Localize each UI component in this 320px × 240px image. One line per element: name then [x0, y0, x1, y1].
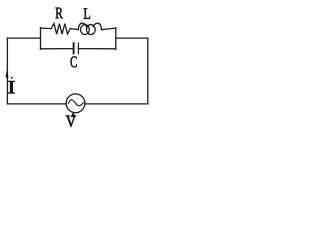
resistor R1 zigzag: [51, 24, 70, 34]
wire: right node to top-right corner: [116, 37, 148, 39]
wire: bottom-left horizontal to AC source: [7, 103, 66, 105]
label C: [71, 56, 77, 67]
node A: left junction stub of parallel block: [40, 28, 42, 50]
wire: left vertical side of loop: [6, 38, 8, 104]
wire: right vertical side of loop: [147, 38, 149, 104]
wire: top-left horizontal from corner to left node: [7, 37, 40, 39]
wire: top branch entry to resistor: [41, 27, 52, 30]
label R: [56, 8, 63, 19]
inductor L1 loop 1: [81, 25, 90, 35]
wire: between resistor and inductor: [70, 29, 78, 30]
AC source V1 circle: [66, 94, 85, 113]
node B: right junction stub of parallel block: [115, 28, 117, 50]
capacitor C1 left plate: [73, 43, 75, 53]
wire: bottom branch from left node to capacitor: [41, 48, 74, 50]
inductor L1 exit arc: [93, 23, 101, 30]
label V: [66, 116, 76, 127]
wire: top branch exit to right node: [102, 28, 116, 30]
inductor L1 loop 2: [87, 25, 96, 35]
current arrowhead on left wire (pointing up): [6, 69, 9, 78]
label L: [84, 8, 90, 18]
wire: AC source to bottom-right corner: [85, 103, 148, 105]
voltage arrowhead at source bottom (pointing up): [71, 112, 76, 118]
inductor L1 entry arc: [78, 23, 86, 30]
dot above I: [11, 77, 13, 79]
capacitor C1 right plate: [77, 43, 79, 53]
AC source sine wave: [69, 100, 84, 106]
wire: capacitor to right node: [78, 48, 115, 50]
label I (phasor current, dotted I): [8, 81, 14, 93]
